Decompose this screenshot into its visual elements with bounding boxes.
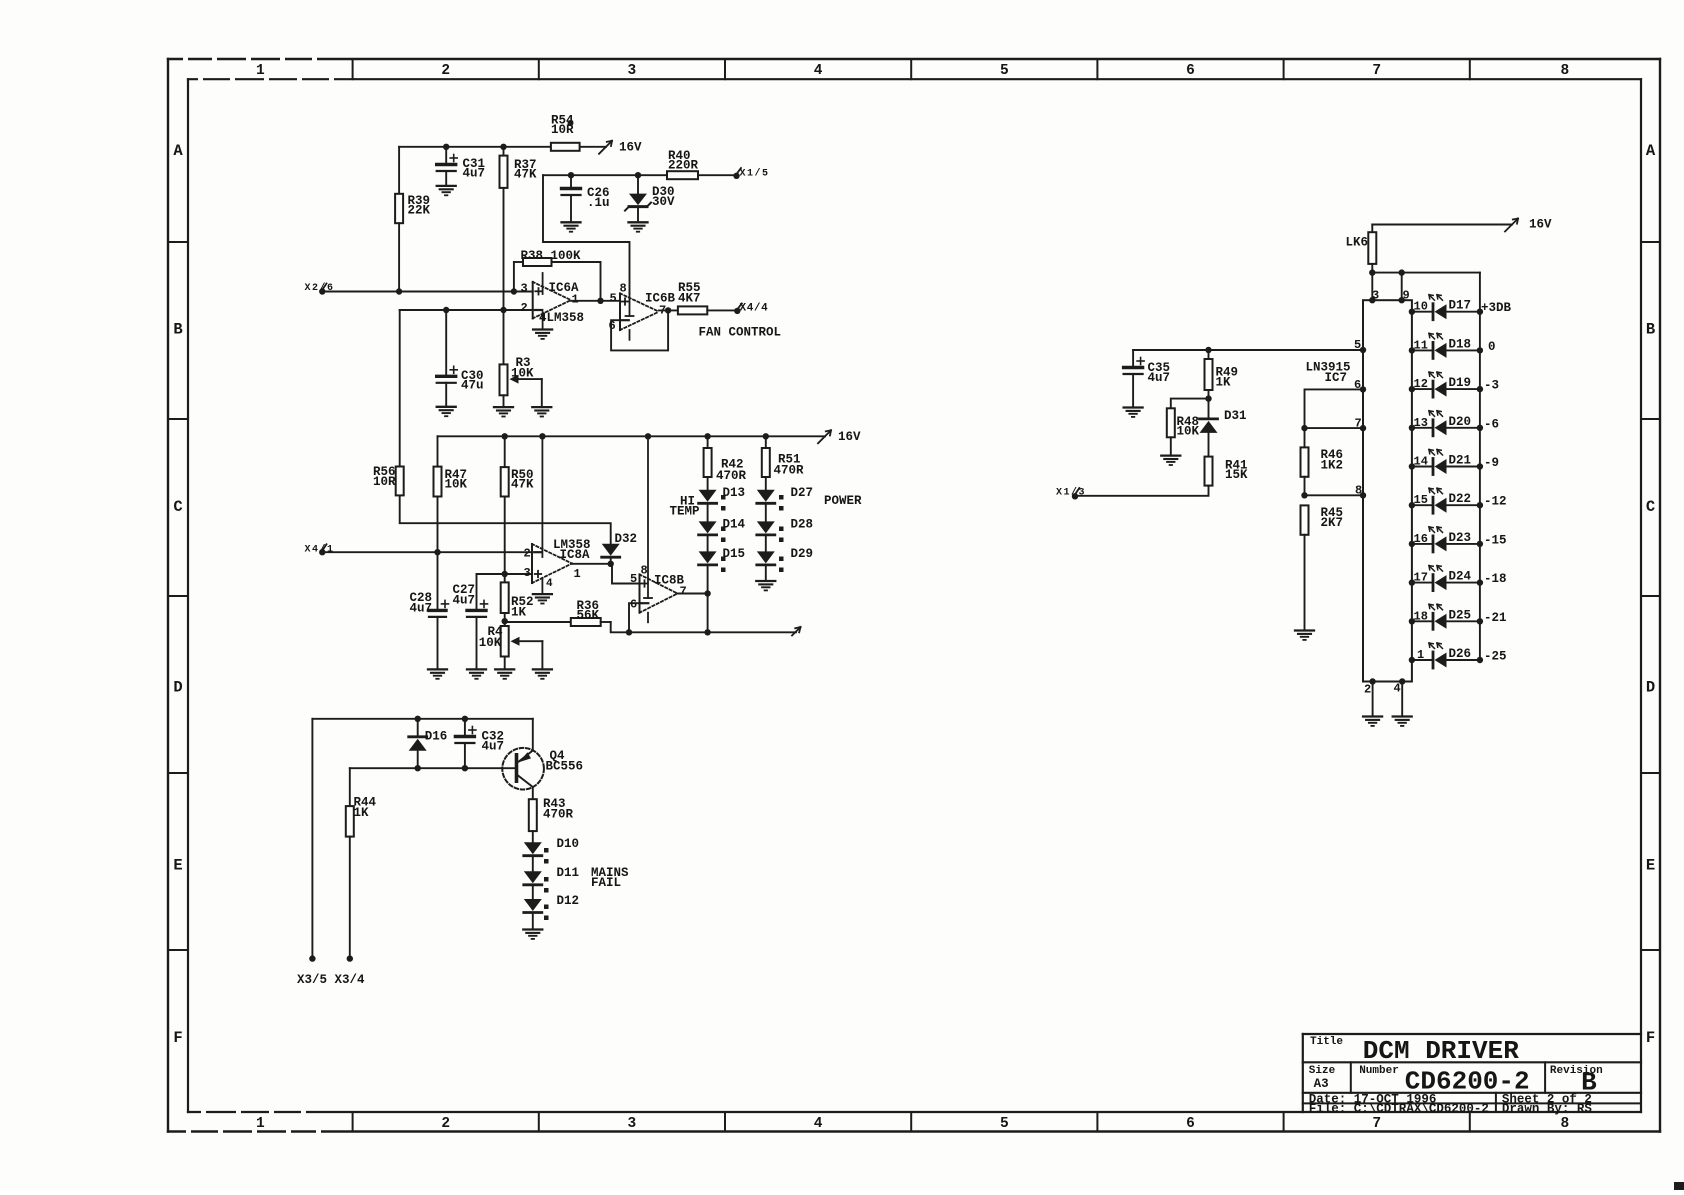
svg-text:5: 5 [1000,63,1009,79]
svg-text:16V: 16V [838,430,861,444]
resistor R45 [1301,505,1344,534]
wire IC8B out down [707,594,709,633]
svg-text:B: B [173,321,182,339]
resistor R48 [1167,408,1200,438]
ground D29 [756,581,775,590]
svg-text:A: A [173,142,183,160]
wire 16V mid rail [438,433,826,439]
svg-text:Title: Title [1310,1036,1343,1048]
power 16V arrow top [599,141,642,155]
svg-text:3: 3 [628,63,637,79]
title block title [1310,1036,1519,1066]
svg-text:IC8A: IC8A [560,548,591,562]
svg-text:7: 7 [680,585,687,599]
wire LK6 node to LED rail [1372,269,1480,275]
svg-text:A: A [1646,142,1656,160]
svg-text:4K7: 4K7 [678,292,701,306]
LED D24 pin 17 [1409,566,1507,591]
border zone ticks [168,59,1660,1132]
resistor R42 [704,436,747,483]
svg-text:D: D [1646,679,1655,697]
wire R39 to X2/6 node [398,223,400,291]
svg-text:4u7: 4u7 [463,167,486,181]
svg-text:E: E [1646,857,1655,875]
ground R4 wiper [533,669,552,678]
svg-text:14: 14 [1414,455,1428,469]
wire D28 to D29 [765,535,767,551]
svg-text:D16: D16 [425,730,448,744]
svg-text:X3/5: X3/5 [297,973,327,987]
wire R42 to D13 [707,477,709,490]
wire R44 branch [349,768,351,806]
pin 3 label [1372,289,1379,303]
svg-text:1K2: 1K2 [1321,459,1344,473]
svg-text:D11: D11 [557,866,580,880]
resistor R44 [346,795,377,836]
resistor R40 [667,149,699,179]
svg-text:16: 16 [1414,532,1428,546]
wire R48 to ground [1170,437,1172,455]
LED D11 [524,866,579,893]
svg-text:4: 4 [814,1116,823,1132]
resistor R43 [529,797,574,831]
svg-text:4: 4 [546,578,553,590]
potentiometer R3 [500,356,542,395]
wire IC8A out to IC8B pin5 [612,564,640,584]
svg-text:4u7: 4u7 [1148,371,1171,385]
svg-text:7: 7 [1355,417,1362,431]
wire X4/1 to IC8A pin2 [322,551,532,553]
svg-text:X3/4: X3/4 [335,973,366,987]
title block sheet [1502,1093,1592,1107]
svg-text:1K: 1K [511,606,527,620]
corner mark [1674,1182,1684,1190]
svg-text:12: 12 [1414,377,1428,391]
border scan breaks [183,57,334,1133]
ground D30 [629,222,648,231]
wire R52 to R4 [502,613,508,626]
svg-text:2: 2 [441,63,450,79]
LED D14 [699,518,746,543]
svg-text:-9: -9 [1484,456,1499,470]
svg-text:3: 3 [521,282,528,296]
wire pin3 net [477,574,533,610]
wire IC6B output [659,307,678,313]
ground R48 [1161,456,1180,465]
svg-text:4u7: 4u7 [410,602,433,616]
svg-text:D10: D10 [557,837,580,851]
svg-text:C: C [173,498,182,516]
label LN3915 IC7 [1306,361,1351,385]
diode D16 [409,719,448,768]
svg-text:2: 2 [524,547,531,561]
wire R56 to D32 [400,495,611,543]
svg-text:X1/5: X1/5 [740,167,770,179]
svg-text:10K: 10K [1177,425,1200,439]
svg-text:D22: D22 [1449,492,1472,506]
svg-text:1: 1 [256,63,265,79]
svg-text:D26: D26 [1449,647,1472,661]
svg-text:B: B [1646,321,1655,339]
wire feedback line [611,622,796,636]
capacitor C35 [1124,350,1170,408]
wire D27 to D28 [765,504,767,522]
svg-text:D29: D29 [791,547,814,561]
LED D26 pin 1 [1409,643,1507,668]
svg-text:Drawn By: RS: Drawn By: RS [1502,1102,1593,1116]
border outer frame [168,59,1660,1132]
ground IC6A [533,330,552,339]
ground C30 [437,407,456,416]
terminal X3/4 [335,955,366,987]
terminal X1/5 [733,167,769,179]
svg-text:2: 2 [441,1116,450,1132]
wire R43 to D10 [532,831,534,842]
svg-text:2: 2 [521,301,528,315]
svg-text:-15: -15 [1484,533,1507,547]
svg-text:16V: 16V [1529,218,1552,232]
LED D29 [757,547,813,572]
svg-text:D18: D18 [1449,337,1472,351]
svg-text:15K: 15K [1225,468,1248,482]
wire D13 to D14 [707,504,709,522]
wire rail to R47 [437,436,439,466]
wire R44 to X3/4 [349,837,351,959]
wire IC6B supply net [543,172,667,293]
LED D28 [757,518,813,543]
wire rail to R50 [504,436,506,467]
svg-text:-12: -12 [1484,495,1507,509]
LED D21 pin 14 [1409,450,1499,475]
wire IC8B output [678,590,711,596]
label MAINS FAIL [591,866,629,890]
wire R45 to ground [1304,535,1306,631]
title block date [1309,1093,1437,1107]
svg-text:3: 3 [1372,289,1379,303]
svg-text:56K: 56K [577,609,600,623]
terminal X4/1 [305,544,335,556]
capacitor C31 [437,147,485,186]
resistor R41 [1205,457,1249,486]
wire pin4 stub [1399,678,1405,716]
svg-text:6: 6 [1354,378,1361,392]
resistor R49 [1205,350,1239,390]
pin 6 label [1354,378,1361,392]
svg-text:30V: 30V [652,195,675,209]
wire base rail [350,765,515,771]
pin 7 label [1355,417,1362,431]
svg-text:-6: -6 [1484,417,1499,431]
pin 5 label [1354,338,1361,352]
svg-text:220R: 220R [668,159,699,173]
wire LK6 to pin3 [1369,264,1375,304]
capacitor C28 [410,591,449,669]
pin 4 label [1394,682,1401,696]
wire R3 bottom [503,395,505,407]
svg-text:R38 100K: R38 100K [521,249,582,263]
svg-text:7: 7 [1372,63,1381,79]
ground R4 [495,669,514,678]
svg-text:47K: 47K [511,478,534,492]
label POWER [824,494,862,508]
ground C27 [467,669,486,678]
wire R37 to pin2 net [503,188,505,310]
svg-text:5: 5 [1354,338,1361,352]
svg-text:10K: 10K [511,367,534,381]
svg-text:47K: 47K [514,168,537,182]
LED D13 [699,486,745,511]
svg-text:D28: D28 [791,518,814,532]
title block revision [1550,1065,1603,1098]
wire R41 to X1/3 [1075,486,1209,496]
svg-text:TEMP: TEMP [670,505,700,519]
terminal X1/3 [1056,486,1086,499]
wire D10 to D11 [532,856,534,871]
pin 9 label [1403,289,1410,303]
resistor R50 [501,467,534,496]
svg-text:3: 3 [524,566,531,580]
svg-text:X2/6: X2/6 [305,282,335,294]
svg-text:2K7: 2K7 [1321,516,1344,530]
wire node to R48 [1171,399,1209,409]
capacitor C27 [453,583,488,669]
LED D15 [699,547,745,572]
svg-text:FAIL: FAIL [591,876,621,890]
svg-text:6: 6 [630,598,637,612]
resistor R52 [501,582,534,619]
capacitor C32 [455,719,504,768]
wire R4 bottom [504,657,506,670]
svg-text:D31: D31 [1224,409,1247,423]
resistor R55 [678,281,707,314]
op-amp IC8A [524,436,591,594]
border inner frame [188,79,1641,1112]
wire R54 to 16V arrow [580,146,606,148]
wire D11 to D12 [532,885,534,899]
pin 2 label [1364,683,1371,697]
svg-text:0: 0 [1488,340,1496,354]
wire R50 to R52 [502,497,508,583]
wire LED rail [1479,273,1481,660]
svg-text:470R: 470R [716,469,747,483]
wire pin9 lead [1399,273,1405,304]
LED D20 pin 13 [1409,411,1499,436]
resistor R54 [551,114,580,151]
wire IC8A output [572,561,614,567]
wire IC6B feedback [611,310,668,350]
svg-text:8: 8 [1561,1116,1570,1132]
wire R49 to D31 node [1205,390,1211,402]
svg-text:D20: D20 [1449,415,1472,429]
diode D31 [1200,399,1247,457]
svg-text:-21: -21 [1484,611,1507,625]
label FAN CONTROL [699,325,782,339]
wire D29 to ground [765,565,767,581]
op-amp IC6B [609,282,676,340]
svg-text:10R: 10R [373,475,396,489]
power 16V arrow right [1505,218,1552,232]
svg-text:D21: D21 [1449,454,1472,468]
svg-text:10K: 10K [445,478,468,492]
svg-text:D27: D27 [791,486,814,500]
svg-text:F: F [1646,1029,1655,1047]
svg-text:47u: 47u [461,379,484,393]
LED D22 pin 15 [1409,488,1507,513]
border zone labels [173,63,1656,1132]
svg-text:4u7: 4u7 [453,594,476,608]
wire X2/6 to IC6A pin3 [322,288,532,294]
svg-text:E: E [173,857,182,875]
link LK6 [1346,225,1377,264]
wire R47 to C28 [434,497,440,611]
svg-text:4LM358: 4LM358 [539,311,584,325]
wire pin2 net horizontal [400,307,533,313]
svg-text:IC7: IC7 [1325,371,1348,385]
svg-text:A3: A3 [1314,1077,1329,1091]
ground R45 [1295,631,1314,640]
node feedback end mark [792,627,801,636]
svg-text:D15: D15 [723,547,746,561]
LED D19 pin 12 [1409,372,1499,397]
svg-text:-18: -18 [1484,572,1507,586]
wire pin6 loop [1301,386,1366,431]
svg-text:+3DB: +3DB [1481,301,1512,315]
terminal X3/5 [297,955,327,987]
wire R46 to pin8 [1301,477,1307,499]
resistor R36 [505,599,611,626]
label HI TEMP [670,495,700,519]
wire R4 wiper to ground [541,641,543,669]
ground IC8A [533,594,552,603]
svg-text:POWER: POWER [824,494,862,508]
ground C31 [437,186,456,195]
svg-text:22K: 22K [408,204,431,218]
svg-text:1: 1 [256,1116,265,1132]
title block number [1359,1065,1529,1097]
wire 16V right rail [1372,224,1512,226]
svg-text:1K: 1K [1216,375,1232,389]
svg-text:11: 11 [1414,338,1428,352]
svg-text:-25: -25 [1484,650,1507,664]
zener diode D30 [625,175,675,222]
svg-text:X1/3: X1/3 [1056,486,1086,498]
resistor R47 [434,467,468,497]
wire IC6A output [571,298,620,304]
resistor R56 [373,465,404,495]
svg-text:18: 18 [1414,609,1428,623]
resistor R38 [514,249,601,301]
capacitor C26 [562,175,610,222]
svg-text:D32: D32 [615,532,638,546]
wire R37 to R3 [503,310,505,364]
svg-text:3: 3 [628,1116,637,1132]
svg-text:6: 6 [1186,1116,1195,1132]
svg-text:BC556: BC556 [546,760,584,774]
ground pin4 [1393,717,1412,726]
svg-text:5: 5 [610,292,617,306]
svg-text:1K: 1K [354,806,370,820]
wire R55 to X4/4 [707,309,737,311]
svg-text:X4/4: X4/4 [740,302,769,314]
resistor R39 [395,194,430,223]
svg-text:FAN CONTROL: FAN CONTROL [699,325,782,339]
svg-text:D14: D14 [723,518,746,532]
IC U7 LM3915 box [1363,300,1412,681]
wire pin5 line [1133,347,1366,353]
svg-text:D24: D24 [1449,570,1472,584]
svg-text:5: 5 [630,572,637,586]
resistor R46 [1301,428,1344,477]
wire R39 top lead [398,147,400,194]
svg-text:D: D [173,679,182,697]
title block frame [1303,1034,1641,1112]
power 16V arrow mid [818,430,861,444]
svg-text:Number: Number [1359,1065,1399,1077]
ground C28 [428,669,447,678]
wire D14 to D15 [707,535,709,551]
op-amp IC6A [521,273,585,330]
svg-text:15: 15 [1414,493,1428,507]
svg-text:4u7: 4u7 [482,740,505,754]
svg-text:5: 5 [1000,1116,1009,1132]
svg-text:Size: Size [1309,1065,1336,1077]
svg-text:4: 4 [1394,682,1401,696]
svg-text:D23: D23 [1449,531,1472,545]
svg-text:X4/1: X4/1 [305,544,335,556]
ground C26 [562,222,581,231]
svg-text:D25: D25 [1449,608,1472,622]
title block size [1309,1065,1336,1091]
svg-text:D12: D12 [557,894,580,908]
op-amp IC8B [630,436,687,622]
title block drawn by [1502,1102,1593,1116]
svg-text:8: 8 [1355,484,1362,498]
wire D12 to ground [532,913,534,930]
wire 16V top rail [399,144,551,150]
svg-text:7: 7 [1372,1116,1381,1132]
capacitor C30 [437,310,484,407]
LED D23 pin 16 [1409,527,1507,552]
svg-text:DCM DRIVER: DCM DRIVER [1363,1036,1519,1066]
ground pin2 [1363,717,1382,726]
svg-text:1: 1 [1417,648,1424,662]
svg-text:D17: D17 [1449,299,1472,313]
svg-text:470R: 470R [774,464,805,478]
LED D17 pin 10 [1409,295,1512,320]
ground R3 wiper [532,407,551,416]
LED D12 [524,894,579,920]
svg-text:4: 4 [814,63,823,79]
wire R40 to X1/5 [698,174,737,176]
svg-text:-3: -3 [1484,379,1499,393]
svg-text:D19: D19 [1449,376,1472,390]
terminal X4/4 [734,302,768,314]
svg-text:10K: 10K [479,636,502,650]
svg-text:13: 13 [1414,416,1428,430]
svg-text:File: C:\CDTRAX\CD6200-2: File: C:\CDTRAX\CD6200-2 [1309,1102,1489,1116]
title block file [1309,1102,1489,1116]
svg-text:10: 10 [1414,300,1428,314]
svg-text:8: 8 [620,282,627,296]
svg-text:C: C [1646,498,1655,516]
transistor Q4 [502,719,583,799]
svg-text:1: 1 [572,293,579,307]
wire pin2 stub [1369,678,1375,716]
ground R3 [494,407,513,416]
LED D10 [524,837,579,864]
ground C35 [1124,408,1143,417]
LED D25 pin 18 [1409,604,1507,629]
